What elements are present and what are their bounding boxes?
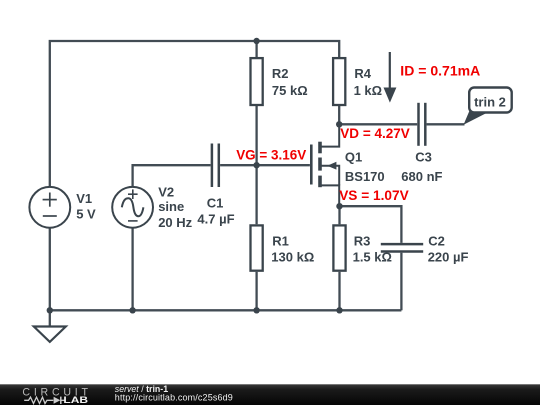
svg-text:R4: R4 [354, 66, 371, 81]
transistor Q1 BS170 [311, 124, 384, 206]
capacitor C1 [197, 144, 234, 227]
svg-text:BS170: BS170 [345, 169, 385, 184]
wire R3 bottom lead [338, 272, 340, 311]
svg-text:V1: V1 [76, 191, 92, 206]
wire C1 to gate [220, 164, 310, 166]
wire V1 bottom lead [49, 228, 51, 310]
wire top rail from V1 to R4 [50, 41, 339, 187]
wire R2 to R1 through gate node [255, 106, 257, 224]
wire ground lead [49, 310, 51, 326]
svg-text:20 Hz: 20 Hz [158, 215, 192, 230]
svg-text:R3: R3 [354, 233, 371, 248]
svg-text:VD = 4.27V: VD = 4.27V [340, 125, 410, 141]
capacitor C2 [381, 233, 469, 264]
svg-text:Q1: Q1 [345, 150, 362, 165]
wire VS node to R3 top [338, 206, 340, 224]
resistor R2 [251, 58, 308, 105]
capacitor C3 [401, 103, 442, 184]
junction node VS (source) [336, 203, 342, 209]
svg-text:220 µF: 220 µF [428, 250, 469, 265]
svg-text:sine: sine [158, 199, 184, 214]
svg-text:75 kΩ: 75 kΩ [272, 83, 308, 98]
junction node VG (gate wire / R2-R1) [253, 162, 259, 168]
svg-text:http://circuitlab.com/c25s6d9: http://circuitlab.com/c25s6d9 [115, 393, 233, 403]
junction node at R2 top [253, 38, 259, 44]
svg-text:4.7 µF: 4.7 µF [197, 212, 234, 227]
junction node R3 bottom [336, 307, 342, 313]
svg-text:VG = 3.16V: VG = 3.16V [236, 147, 307, 163]
svg-text:C3: C3 [415, 150, 432, 165]
svg-text:680 nF: 680 nF [401, 169, 442, 184]
node flag trin 2 [464, 88, 512, 125]
svg-text:trin 2: trin 2 [474, 94, 506, 109]
junction node V2 bottom [129, 307, 135, 313]
wire C2 bottom to rail [400, 253, 402, 311]
CircuitLab logo [22, 386, 88, 405]
ground [34, 327, 66, 342]
svg-text:VS = 1.07V: VS = 1.07V [339, 187, 409, 203]
wire V2 top to C1 (gate wire) [133, 165, 211, 187]
wire bottom rail [50, 309, 402, 311]
svg-text:5 V: 5 V [76, 207, 96, 222]
junction node R1 bottom [253, 307, 259, 313]
svg-text:130 kΩ: 130 kΩ [271, 250, 314, 265]
wire R1 bottom lead [255, 272, 257, 311]
svg-text:LAB: LAB [63, 394, 88, 405]
svg-text:V2: V2 [158, 184, 174, 199]
svg-text:R2: R2 [272, 66, 289, 81]
svg-text:1 kΩ: 1 kΩ [354, 83, 383, 98]
wire R2 top lead [255, 41, 257, 57]
resistor R4 [333, 58, 382, 105]
svg-text:C1: C1 [207, 196, 224, 211]
voltage source V1 [29, 187, 96, 228]
junction node VD (drain) [336, 121, 342, 127]
voltage source V2 (sine) [112, 184, 192, 230]
svg-text:R1: R1 [272, 233, 289, 248]
wire V2 bottom lead [131, 228, 133, 310]
wire R4 bottom to drain node [338, 106, 340, 124]
footer bar [0, 384, 540, 405]
svg-text:ID = 0.71mA: ID = 0.71mA [400, 63, 480, 79]
wire drain node to C3 [339, 123, 417, 125]
resistor R1 [251, 225, 315, 270]
current arrow ID [384, 52, 397, 103]
wire VS node to C2 [340, 206, 402, 243]
junction node V1 bottom [47, 307, 53, 313]
resistor R3 [333, 225, 392, 270]
wire C3 to trin2 flag [427, 123, 465, 125]
svg-text:C2: C2 [428, 233, 445, 248]
